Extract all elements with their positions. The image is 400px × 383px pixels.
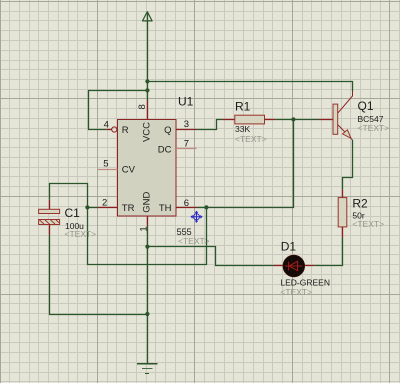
wire D1 cathode to ground rail <box>148 247 274 266</box>
pin stub U1 pin 1 GND <box>147 216 149 226</box>
svg-text:5: 5 <box>103 159 108 170</box>
pin stub U1 pin 4 with inversion bubble <box>106 127 117 132</box>
pin stub D1 anode <box>304 265 314 267</box>
svg-text:U1: U1 <box>178 95 194 109</box>
pin stub D1 cathode <box>273 265 283 267</box>
pin stub U1 pin 6 TH <box>176 207 197 209</box>
svg-text:33K: 33K <box>235 124 250 134</box>
junction VCC rail to collector branch <box>145 79 149 83</box>
junction ground rail to C1 branch <box>145 312 149 316</box>
svg-text:R1: R1 <box>235 99 251 113</box>
origin marker <box>191 211 202 222</box>
wire VCC to U1 pin 4 reset <box>89 91 148 130</box>
resistor R2 <box>338 189 347 237</box>
pin stub U1 pin 7 DC unconnected <box>176 148 197 150</box>
svg-text:Q1: Q1 <box>358 99 374 113</box>
svg-text:4: 4 <box>104 120 109 131</box>
wire U1 pin 3 to R1 left <box>197 120 223 130</box>
svg-text:C1: C1 <box>65 206 81 220</box>
wire R1 right to base node <box>275 119 293 121</box>
pin stub U1 pin 2 TR <box>98 207 118 209</box>
wire TH node up to base node <box>207 120 294 208</box>
svg-text:R: R <box>122 125 129 136</box>
svg-text:CV: CV <box>122 165 136 176</box>
svg-text:<TEXT>: <TEXT> <box>235 134 267 144</box>
svg-text:<TEXT>: <TEXT> <box>178 236 210 246</box>
svg-text:<TEXT>: <TEXT> <box>280 287 312 297</box>
wire Q1 emitter down to R2 <box>343 140 353 189</box>
pin stub Q1 base <box>319 119 333 121</box>
junction VCC rail to reset branch <box>145 88 149 92</box>
junction TR C1 feedback node <box>85 205 89 209</box>
wire TR node down and across to TH node <box>88 208 207 265</box>
svg-text:<TEXT>: <TEXT> <box>65 229 97 239</box>
wire ground rail vertical <box>147 226 149 364</box>
svg-text:Q: Q <box>164 125 171 136</box>
Q1 emitter arrow <box>343 130 351 139</box>
junction node R1 base feedback <box>291 117 295 121</box>
svg-text:<TEXT>: <TEXT> <box>352 219 384 229</box>
pin stub Q1 emitter <box>338 125 353 141</box>
ground symbol <box>137 364 158 374</box>
wire power rail vertical down to U1 pin 8 <box>147 12 149 100</box>
wire C1 bottom to ground rail <box>50 235 148 315</box>
LED D1 <box>283 255 304 276</box>
pin stub U1 pin 8 VCC <box>147 100 149 120</box>
wire TR node to TR pin <box>88 207 99 209</box>
svg-text:8: 8 <box>137 104 148 109</box>
power symbol VCC arrow <box>143 12 153 21</box>
pin stub Q1 collector <box>338 91 353 113</box>
pin stub U1 pin 3 Q output <box>176 129 197 131</box>
junction TH feedback node <box>204 205 208 209</box>
op-amp U1 555 timer body <box>118 120 177 217</box>
wire VCC branch to Q1 collector <box>148 82 353 92</box>
junction ground rail to LED branch <box>145 245 149 249</box>
svg-text:VCC: VCC <box>142 122 153 142</box>
svg-text:TR: TR <box>122 203 135 214</box>
wire R2 bottom to D1 anode <box>314 237 342 265</box>
wire TH pin to TH node <box>197 207 207 209</box>
transistor Q1 body bar <box>333 104 338 134</box>
wire C1 top to TR node <box>50 184 88 208</box>
svg-text:3: 3 <box>184 119 189 130</box>
svg-text:TH: TH <box>159 203 172 214</box>
svg-text:DC: DC <box>158 144 172 155</box>
pin stub U1 pin 5 CV unconnected <box>98 169 118 171</box>
svg-text:GND: GND <box>142 192 153 213</box>
resistor R1 <box>223 115 276 124</box>
wire base node to Q1 base <box>294 119 320 121</box>
svg-text:D1: D1 <box>281 239 297 253</box>
svg-text:R2: R2 <box>352 196 368 210</box>
capacitor C1 <box>39 200 60 235</box>
svg-text:2: 2 <box>102 197 107 208</box>
svg-text:<TEXT>: <TEXT> <box>358 123 390 133</box>
